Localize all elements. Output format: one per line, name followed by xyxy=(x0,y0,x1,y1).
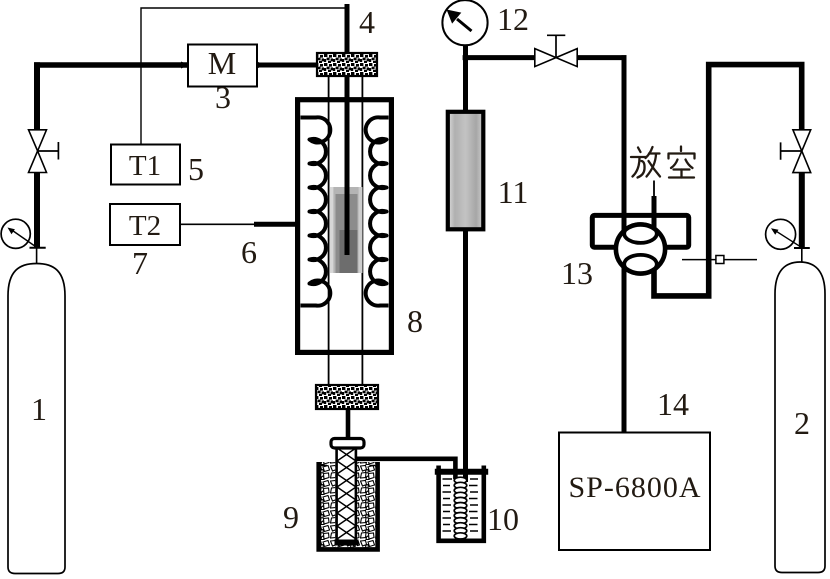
wire: pipe valve to cylinder 2 xyxy=(799,173,805,248)
wire: thermocouple line 6 into furnace xyxy=(180,223,299,225)
svg-text:7: 7 xyxy=(132,245,148,281)
reactor bottom flange xyxy=(316,385,378,409)
wire: main pipe valve to sampling valve riser xyxy=(577,55,627,60)
svg-text:10: 10 xyxy=(487,501,519,537)
gas cylinder 2 xyxy=(775,262,825,573)
svg-text:4: 4 xyxy=(359,4,375,40)
wire: vent line (thin) xyxy=(653,181,655,201)
bubbler 10 xyxy=(435,466,488,541)
wire: left riser above valve xyxy=(34,62,40,130)
cylinder 1 valve tick xyxy=(30,247,46,249)
cold trap 9 dewar xyxy=(319,462,378,549)
svg-text:8: 8 xyxy=(407,303,423,339)
wire: loop from six-port valve to cylinder 2 xyxy=(654,65,802,296)
wire: pipe flowmeter to reactor flange xyxy=(257,62,318,69)
column 11 xyxy=(448,112,484,230)
svg-text:11: 11 xyxy=(498,174,529,210)
temperature controller T1 box xyxy=(111,145,180,185)
heating coil right xyxy=(366,117,389,305)
wire: thin signal line T1 to thermocouple xyxy=(141,8,349,145)
svg-text:M: M xyxy=(208,45,236,81)
valve on main line (horizontal) xyxy=(535,35,577,66)
wire: main pipe gauge12 to valve xyxy=(463,55,536,60)
wire: tube below bottom flange to trap xyxy=(346,409,351,440)
svg-text:6: 6 xyxy=(241,234,257,270)
wire: pipe from column 11 into bubbler xyxy=(463,45,468,482)
svg-text:T2: T2 xyxy=(129,210,161,242)
reactor top flange xyxy=(317,53,377,76)
six-port sampling valve 13 xyxy=(592,215,688,273)
svg-text:13: 13 xyxy=(561,255,593,291)
svg-text:12: 12 xyxy=(497,1,529,37)
gas chromatograph SP-6800A box xyxy=(559,433,710,551)
svg-text:SP-6800A: SP-6800A xyxy=(568,471,701,504)
svg-text:T1: T1 xyxy=(129,150,161,182)
wire: sampling line with septum xyxy=(682,256,757,264)
cylinder 2 valve tick xyxy=(794,247,810,249)
svg-text:2: 2 xyxy=(794,405,810,441)
svg-text:9: 9 xyxy=(283,499,299,535)
wire: pipe cylinder1 to flowmeter (top-left horizontal) xyxy=(34,62,188,68)
wire: riser to six-port valve and GC xyxy=(622,55,627,432)
pressure gauge on cylinder 1 xyxy=(1,219,35,248)
wire: cylinder 1 neck line xyxy=(36,248,38,265)
pressure gauge on cylinder 2 xyxy=(766,219,799,249)
thermocouple 4 (thick vertical) xyxy=(345,4,350,255)
svg-text:3: 3 xyxy=(215,79,231,115)
label vent 放空 xyxy=(631,147,695,178)
wire: vent line (thick) xyxy=(652,196,657,236)
furnace outer shell 8 xyxy=(298,100,392,353)
wire: pipe valve to cylinder 1 xyxy=(34,173,40,249)
gas cylinder 1 xyxy=(8,264,65,574)
svg-text:5: 5 xyxy=(188,151,204,187)
flowmeter M box xyxy=(181,45,257,87)
valve on cylinder 2 line xyxy=(781,130,811,173)
reactor inner tube walls xyxy=(329,76,363,385)
svg-text:14: 14 xyxy=(657,386,689,422)
svg-text:1: 1 xyxy=(31,391,47,427)
valve on cylinder 1 line xyxy=(29,130,59,173)
wire: trap to bubbler line xyxy=(356,459,455,479)
wire: cylinder 2 neck line xyxy=(801,248,803,263)
cold trap inner tube with packing xyxy=(331,439,364,549)
heating coil left xyxy=(301,117,331,305)
temperature controller T2 box xyxy=(110,204,180,245)
pressure gauge 12 xyxy=(442,0,487,45)
catalyst bed xyxy=(330,187,362,273)
